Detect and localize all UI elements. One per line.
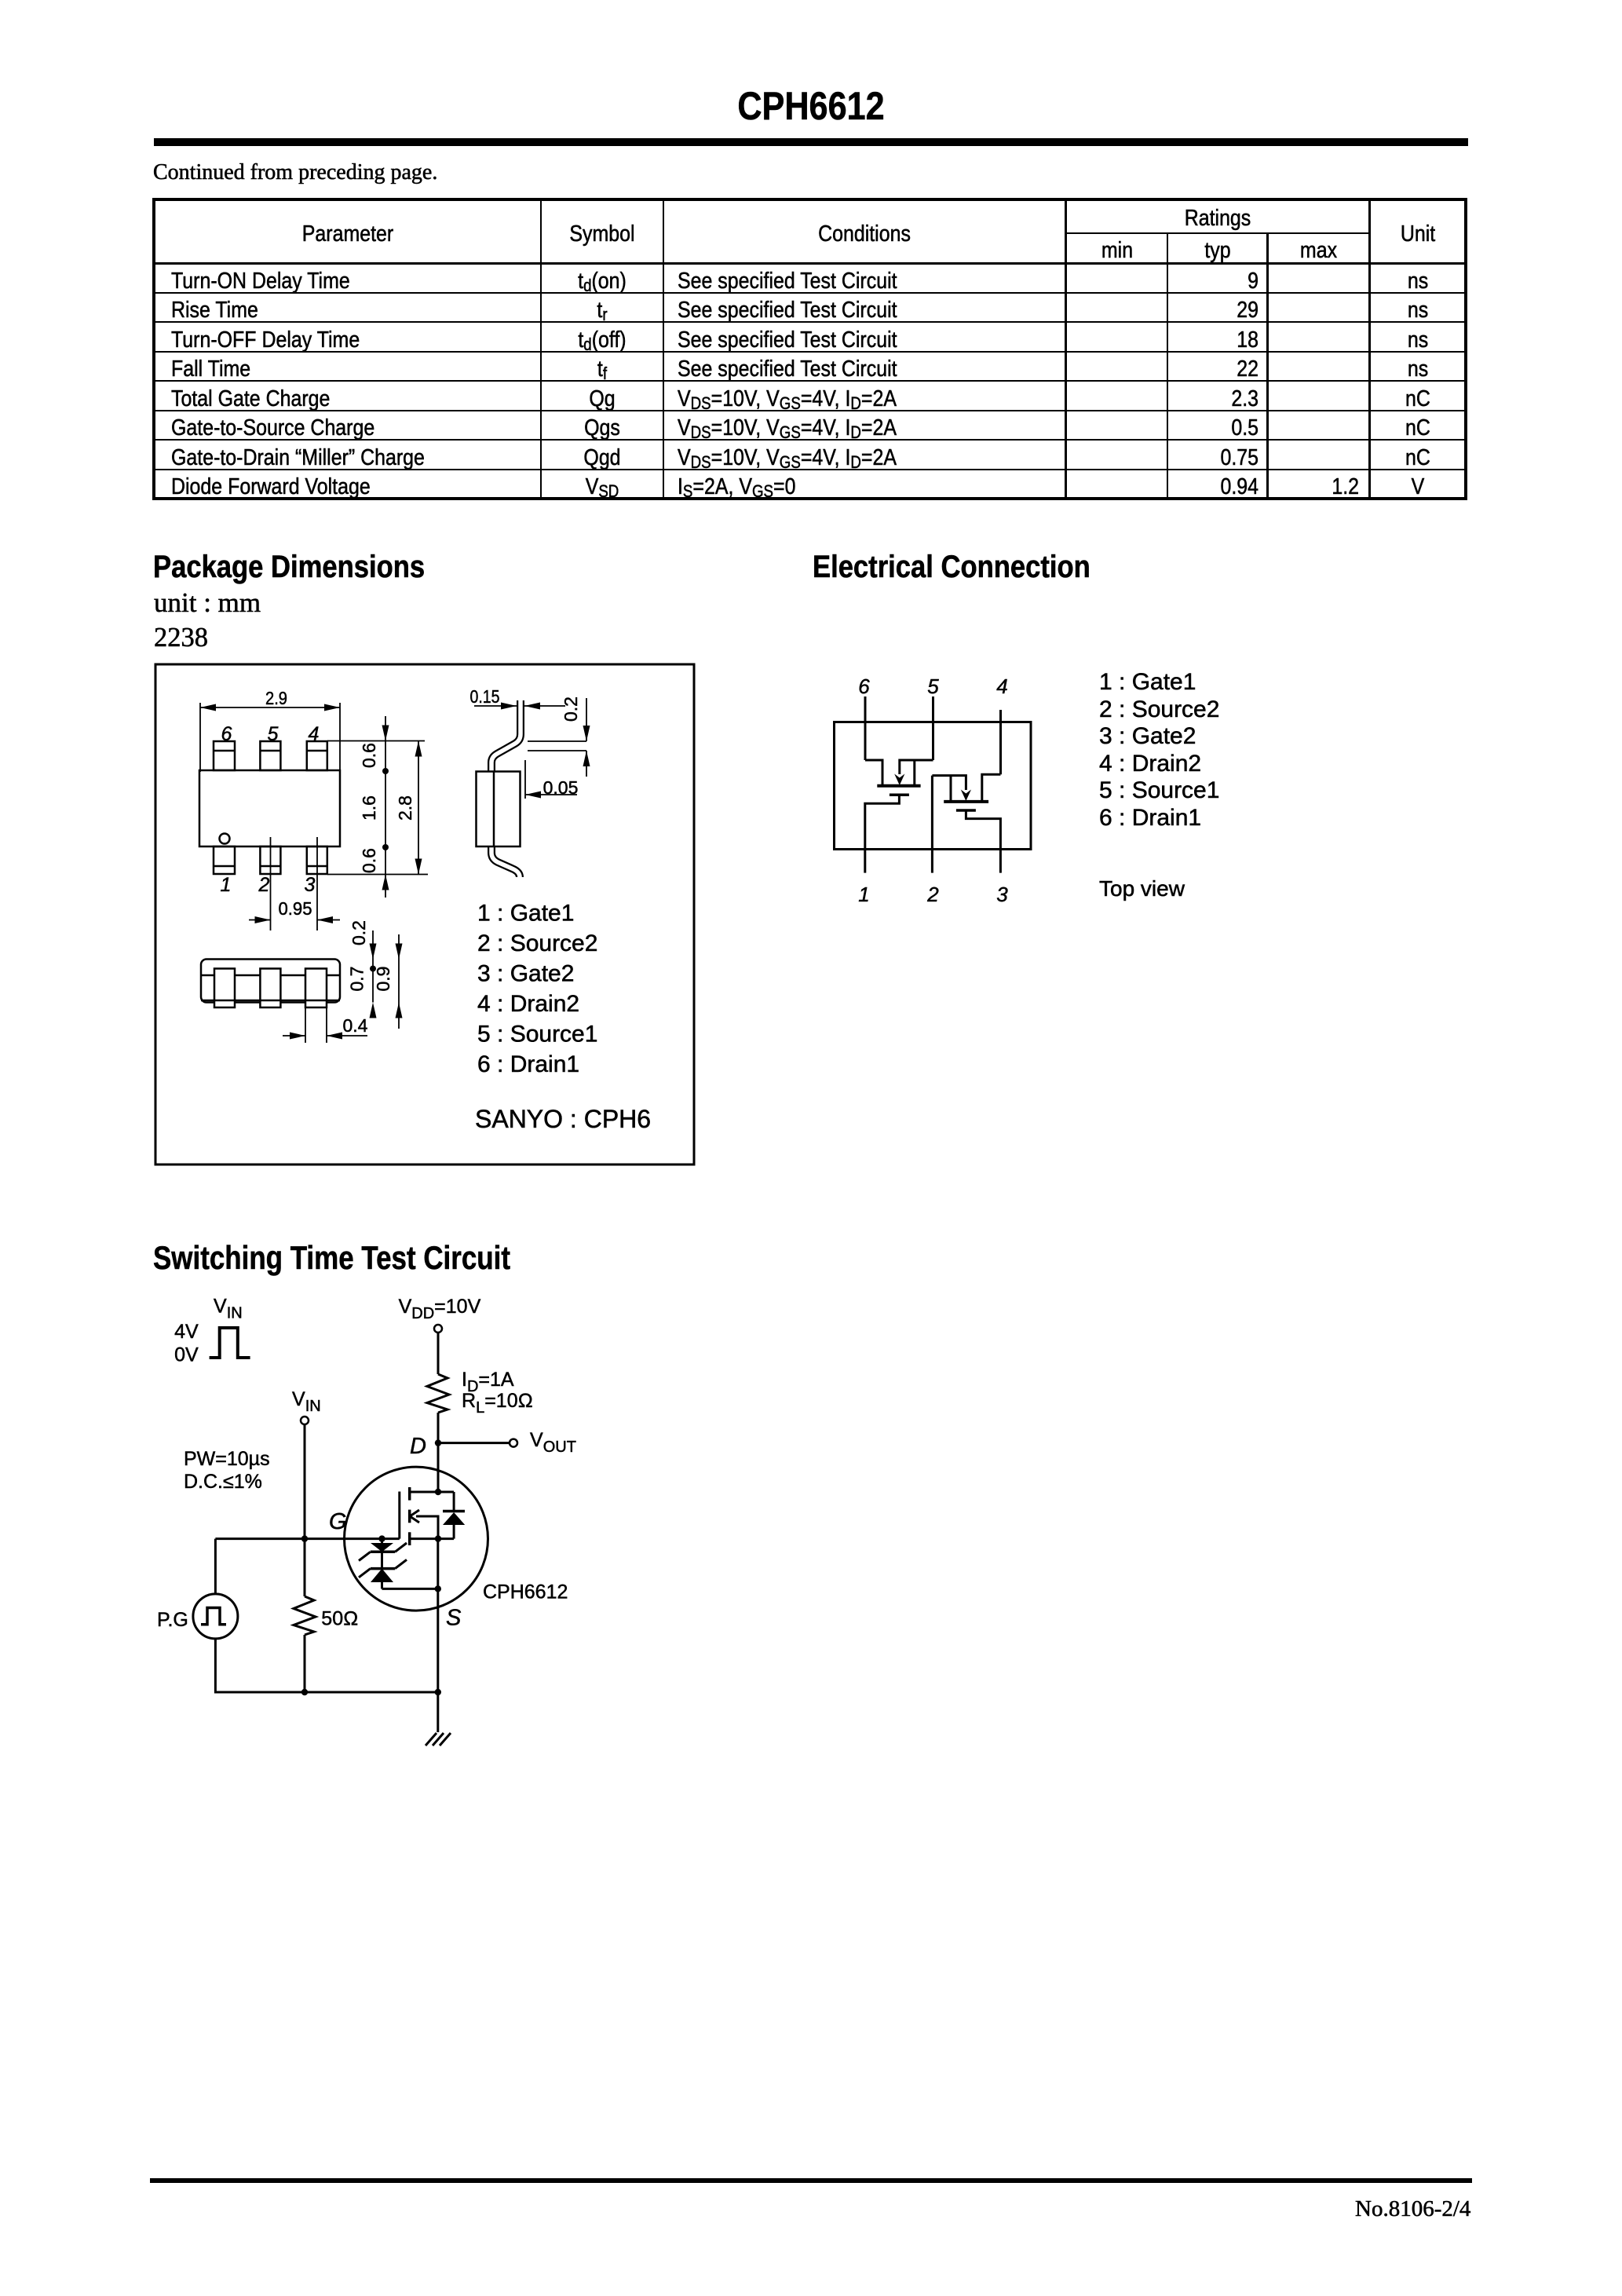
svg-text:2.8: 2.8 bbox=[395, 795, 415, 821]
svg-text:P.G: P.G bbox=[157, 1609, 188, 1631]
svg-text:RL=10Ω: RL=10Ω bbox=[462, 1390, 533, 1417]
svg-text:3: 3 bbox=[305, 874, 316, 896]
svg-text:50Ω: 50Ω bbox=[321, 1608, 358, 1630]
svg-text:1.6: 1.6 bbox=[359, 795, 379, 821]
svg-text:VIN: VIN bbox=[214, 1296, 243, 1322]
svg-text:5: 5 bbox=[268, 723, 279, 745]
svg-text:6: 6 bbox=[221, 723, 232, 745]
svg-text:1: 1 bbox=[221, 874, 232, 896]
svg-text:4: 4 bbox=[309, 723, 320, 745]
svg-text:PW=10µs: PW=10µs bbox=[184, 1448, 270, 1470]
svg-text:4 : Drain2: 4 : Drain2 bbox=[477, 991, 579, 1017]
svg-text:VIN: VIN bbox=[292, 1388, 321, 1415]
svg-text:1: 1 bbox=[858, 883, 869, 906]
svg-text:0.6: 0.6 bbox=[359, 743, 379, 768]
svg-text:VDD=10V: VDD=10V bbox=[399, 1296, 481, 1322]
svg-text:VOUT: VOUT bbox=[530, 1429, 576, 1456]
svg-text:D.C.≤1%: D.C.≤1% bbox=[184, 1471, 262, 1493]
svg-text:G: G bbox=[329, 1509, 347, 1534]
svg-text:0.9: 0.9 bbox=[373, 967, 393, 992]
svg-text:4V: 4V bbox=[174, 1321, 199, 1343]
svg-text:2.9: 2.9 bbox=[265, 688, 287, 708]
svg-text:0.4: 0.4 bbox=[343, 1015, 368, 1036]
svg-text:D: D bbox=[410, 1434, 426, 1459]
svg-text:0.05: 0.05 bbox=[543, 777, 579, 798]
svg-text:0.2: 0.2 bbox=[561, 696, 581, 722]
svg-text:0.15: 0.15 bbox=[470, 686, 500, 707]
svg-text:0.6: 0.6 bbox=[359, 848, 379, 873]
svg-text:0.7: 0.7 bbox=[347, 967, 367, 992]
svg-text:0.95: 0.95 bbox=[279, 898, 312, 919]
svg-text:0V: 0V bbox=[174, 1344, 199, 1366]
svg-text:6 : Drain1: 6 : Drain1 bbox=[477, 1051, 579, 1077]
svg-text:4: 4 bbox=[996, 675, 1007, 698]
svg-text:2: 2 bbox=[926, 883, 939, 906]
svg-text:5: 5 bbox=[927, 675, 939, 698]
svg-text:3: 3 bbox=[996, 883, 1008, 906]
svg-text:5 : Source1: 5 : Source1 bbox=[477, 1022, 597, 1047]
svg-text:CPH6612: CPH6612 bbox=[483, 1581, 568, 1603]
svg-text:2 : Source2: 2 : Source2 bbox=[477, 930, 597, 956]
svg-text:1 : Gate1: 1 : Gate1 bbox=[477, 901, 574, 927]
svg-text:0.2: 0.2 bbox=[349, 920, 369, 945]
svg-text:S: S bbox=[446, 1606, 462, 1631]
svg-text:3 : Gate2: 3 : Gate2 bbox=[477, 961, 574, 987]
svg-text:6: 6 bbox=[858, 675, 870, 698]
svg-text:SANYO : CPH6: SANYO : CPH6 bbox=[475, 1105, 651, 1133]
svg-text:2: 2 bbox=[258, 874, 270, 896]
